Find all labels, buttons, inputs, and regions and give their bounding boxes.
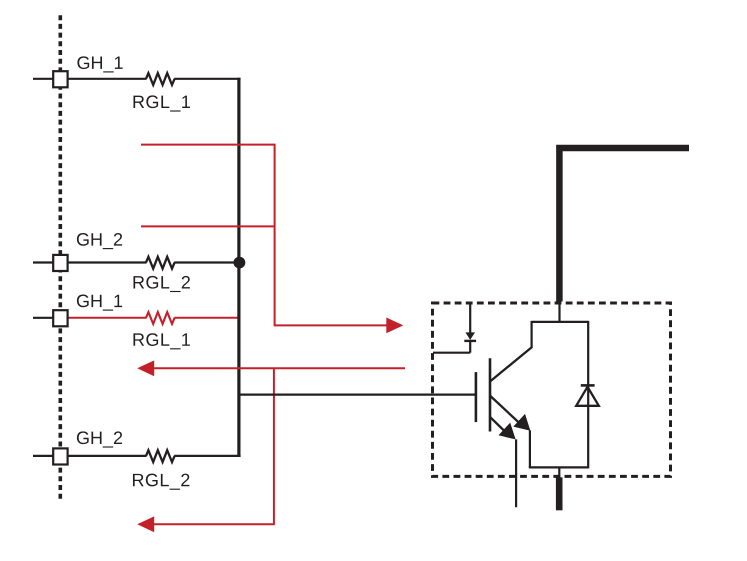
DC- bus stub (thick) <box>556 477 563 510</box>
resistor RGL_2 (row 4) <box>146 450 175 462</box>
wire GH_1 row 3 (red) <box>67 317 147 319</box>
diode branch vertical <box>587 321 589 469</box>
kelvin emitter wire out <box>515 439 517 507</box>
clamp diode D2 <box>465 332 475 340</box>
red loop C wire (to left arrow) <box>153 367 405 369</box>
clamp diode D2 cathode bar <box>464 340 476 342</box>
wire stub row 3 <box>33 317 54 319</box>
collector left drop wire <box>530 321 532 348</box>
DC+ bus bar (thick) <box>559 148 689 302</box>
label RGL_1 (row 3) <box>133 333 189 349</box>
label GH_1 (row 1) <box>77 56 122 72</box>
wire row 3 to bus (red) <box>174 317 239 319</box>
collector feed wire <box>558 301 560 323</box>
label GH_1 (row 3) <box>77 295 122 311</box>
wire row 2 to bus <box>174 261 240 263</box>
IGBT Q1 emitter diagonal <box>490 396 522 426</box>
emitter feed wire <box>558 467 560 477</box>
label RGL_1 (row 1) <box>133 95 189 111</box>
resistor RGL_1 (row 3, red) <box>146 312 175 324</box>
clamp diode wire lower <box>469 341 471 353</box>
clamp diode wire from top <box>469 303 471 334</box>
IGBT Q1 collector diagonal <box>490 347 532 382</box>
resistor RGL_2 (row 2) <box>146 257 175 269</box>
wire GH_1 row 1 <box>67 78 147 80</box>
wire GH_2 row 2 <box>67 261 147 263</box>
resistor RGL_1 (row 1) <box>146 73 175 85</box>
IGBT Q1 emitter arrow <box>513 414 530 431</box>
IGBT Q1 kelvin emitter diagonal <box>490 417 507 434</box>
red loop C branch wire down <box>153 368 274 524</box>
collector top rail <box>532 321 589 323</box>
gate driver boundary dashed line <box>58 15 62 502</box>
IGBT Q1 gate bar <box>475 372 478 422</box>
connector pad GH_2 (row 4) <box>53 448 67 464</box>
IGBT Q1 body bar <box>489 358 492 431</box>
gate wire to IGBT <box>239 394 475 396</box>
red arrow left (loop C) <box>137 360 154 376</box>
wire stub row 1 <box>33 78 54 80</box>
clamp diode wire to box edge <box>433 352 470 354</box>
wire row 1 to bus <box>174 78 240 80</box>
red loop B wire <box>141 225 275 227</box>
emitter bottom rail <box>529 466 588 468</box>
label GH_2 (row 2) <box>77 233 122 249</box>
connector pad GH_1 (row 1) <box>53 71 67 87</box>
gate bus vertical wire <box>237 78 240 457</box>
freewheel diode D1 cathode bar <box>581 384 595 387</box>
kelvin emitter arrow <box>499 423 516 440</box>
junction dot <box>234 257 246 269</box>
label RGL_2 (row 2) <box>133 276 189 292</box>
freewheel diode D1 <box>576 387 599 406</box>
wire row 4 to bus <box>174 455 240 457</box>
label RGL_2 (row 4) <box>133 474 189 490</box>
red arrow left (bottom) <box>137 516 154 532</box>
connector pad GH_1 (row 3) <box>53 310 67 326</box>
connector pad GH_2 (row 2) <box>53 255 67 271</box>
wire GH_2 row 4 <box>67 455 147 457</box>
wire stub row 4 <box>33 455 54 457</box>
label GH_2 (row 4) <box>77 431 122 447</box>
wire stub row 2 <box>33 261 54 263</box>
IGBT module dashed outline <box>433 303 671 476</box>
emitter left rail <box>529 431 531 468</box>
red arrow right (loop A) <box>386 318 403 334</box>
red loop A wire (top) <box>141 145 393 326</box>
